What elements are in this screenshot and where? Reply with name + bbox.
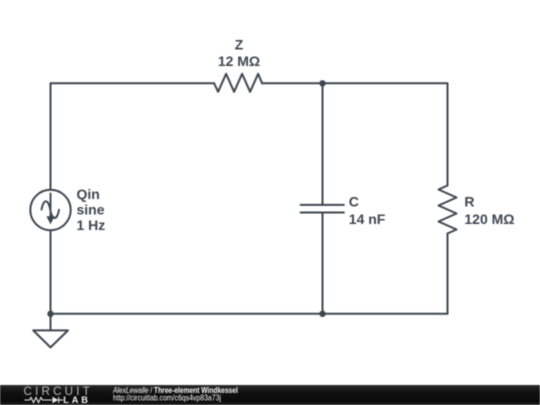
wire middle vertical bottom (capacitor C to bottom rail) [322, 213, 324, 314]
wire top horizontal left (source to resistor Z) [51, 82, 215, 84]
svg-text:Qin: Qin [77, 186, 100, 202]
svg-text:sine: sine [77, 201, 105, 217]
wire top horizontal right (resistor Z to node B and right) [262, 82, 447, 84]
ground triangle [33, 330, 68, 347]
wire right vertical bottom (resistor R to bottom rail) [447, 234, 449, 314]
current source Qin circle [30, 190, 70, 230]
wire left vertical top (node A to current source) [50, 83, 52, 193]
wire right vertical top (top rail to resistor R) [447, 83, 449, 185]
wire bottom horizontal rail [51, 313, 448, 315]
junction node dot (bottom middle) [319, 311, 325, 317]
wire middle vertical top (node B to capacitor C) [322, 83, 324, 205]
ground stub wire [50, 314, 52, 331]
logo resistor-diode motif [24, 397, 63, 403]
wire left vertical bottom (current source to ground node) [50, 231, 52, 314]
resistor Z zigzag [214, 74, 262, 92]
svg-text:http://circuitlab.com/c6qs4vp8: http://circuitlab.com/c6qs4vp83a73j [113, 392, 221, 402]
current source sine symbol [42, 201, 60, 218]
svg-text:C: C [349, 194, 359, 210]
capacitor C top plate [301, 204, 344, 206]
resistor R zigzag [439, 186, 457, 234]
svg-text:Z: Z [235, 36, 244, 52]
svg-text:R: R [464, 194, 474, 210]
svg-text:LAB: LAB [63, 395, 91, 405]
svg-text:12 MΩ: 12 MΩ [218, 53, 260, 69]
junction node B dot (top) [319, 80, 325, 86]
svg-text:120 MΩ: 120 MΩ [464, 211, 514, 227]
svg-text:14 nF: 14 nF [349, 211, 386, 227]
current source arrow shaft [50, 194, 52, 217]
capacitor C bottom plate [301, 212, 344, 214]
junction ground node dot [47, 311, 53, 317]
current source arrowhead [46, 216, 54, 224]
svg-text:1 Hz: 1 Hz [77, 217, 106, 233]
logo diode triangle [52, 397, 58, 403]
